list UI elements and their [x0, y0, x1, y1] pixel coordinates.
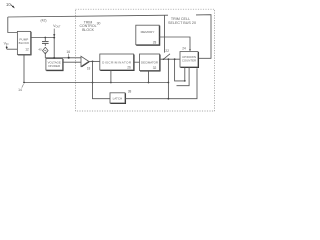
- node: crossing junction on bottom wire: [92, 82, 94, 84]
- comparator 18: [81, 56, 90, 70]
- arrowhead into counter top: [189, 49, 191, 51]
- zener diode (diamond): [43, 47, 49, 58]
- discriminator bottom drop: [110, 70, 112, 83]
- decimator block 32: [140, 54, 160, 71]
- node: V2 top junction: [174, 58, 176, 60]
- outer dashed box (trim control block boundary): [75, 9, 214, 111]
- left end of rail into pump block: [8, 17, 18, 33]
- wire discriminator to decimator: [134, 61, 140, 63]
- hook wire V2 into counter bottom: [175, 59, 185, 81]
- svg-text:22: 22: [165, 49, 169, 53]
- sense wire to comparator: [45, 57, 81, 59]
- node: V1 bottom junction: [168, 98, 170, 100]
- node: V1 mid junction: [168, 82, 170, 84]
- svg-text:VIN: VIN: [4, 42, 9, 47]
- switch 22 with bus drop: [163, 15, 170, 60]
- svg-text:32: 32: [153, 66, 157, 70]
- node 16 junction dot: [68, 57, 70, 59]
- node: pump bottom corner junction: [23, 82, 25, 84]
- svg-text:14: 14: [18, 88, 22, 92]
- pump bottom wire along y=82.5: [24, 55, 168, 83]
- hook wire V3 from counter bottom: [177, 68, 190, 86]
- decimator bottom drop: [148, 71, 150, 83]
- svg-text:26: 26: [127, 66, 131, 70]
- svg-text:28: 28: [153, 41, 157, 45]
- svg-text:24: 24: [182, 47, 186, 51]
- node: comparator output junction: [92, 61, 94, 63]
- svg-text:DIVIDER: DIVIDER: [48, 64, 60, 68]
- VOUT label with arrow: [53, 24, 61, 37]
- node: divider tap junction: [53, 57, 55, 59]
- node: V2 corner junction: [184, 80, 186, 82]
- latch block 38: [110, 90, 131, 104]
- node: capacitor tap junction: [44, 37, 46, 39]
- svg-text:DECIMATOR: DECIMATOR: [141, 60, 158, 64]
- svg-text:VOUT: VOUT: [53, 24, 61, 29]
- memory block 28: [136, 25, 160, 45]
- svg-text:DISCRIMINATOR: DISCRIMINATOR: [102, 61, 132, 65]
- svg-text:12: 12: [25, 48, 29, 52]
- top rail wire (42): [8, 15, 168, 17]
- voltage divider block: [46, 59, 63, 71]
- comparator output wire: [89, 60, 100, 62]
- svg-text:LATCH: LATCH: [113, 97, 123, 101]
- svg-text:16: 16: [66, 50, 70, 54]
- up/down counter block 24: [180, 47, 198, 68]
- node: V1 top junction: [168, 58, 170, 60]
- svg-text:10: 10: [6, 2, 11, 7]
- vertical V1 from switch wire to latch line: [167, 59, 169, 98]
- node: discriminator drop junction: [110, 82, 112, 84]
- pump block 12: [17, 31, 31, 54]
- node: decimator drop junction: [148, 82, 150, 84]
- pump output wire: [31, 38, 55, 58]
- capacitor: [42, 38, 49, 46]
- decimator output wire to counter: [160, 58, 181, 60]
- divider output wire: [63, 61, 81, 63]
- latch output wire to counter bottom: [125, 68, 197, 98]
- svg-text:(42): (42): [40, 19, 46, 23]
- VIN input: [4, 42, 18, 50]
- node: VOUT corner junction: [53, 37, 55, 39]
- svg-text:38: 38: [128, 90, 132, 94]
- svg-text:COUNTER: COUNTER: [182, 59, 196, 63]
- svg-text:MEMORY: MEMORY: [141, 30, 155, 34]
- svg-text:30: 30: [97, 22, 101, 26]
- svg-text:BLOCK: BLOCK: [82, 28, 95, 32]
- svg-text:SELECT BUS 20: SELECT BUS 20: [168, 21, 196, 25]
- label TRIM CELL SELECT BUS 20: [168, 17, 196, 25]
- label TRIM CONTROL BLOCK 30: [79, 21, 100, 32]
- svg-text:18: 18: [87, 67, 91, 71]
- memory output wire to counter top: [159, 37, 190, 50]
- discriminator block 26: [100, 54, 134, 70]
- wire: [7, 48, 18, 50]
- svg-text:BLOCK: BLOCK: [19, 41, 30, 45]
- svg-text:40: 40: [38, 48, 42, 52]
- figure reference 10 with arrow: [6, 2, 15, 8]
- wire down to latch: [93, 61, 111, 98]
